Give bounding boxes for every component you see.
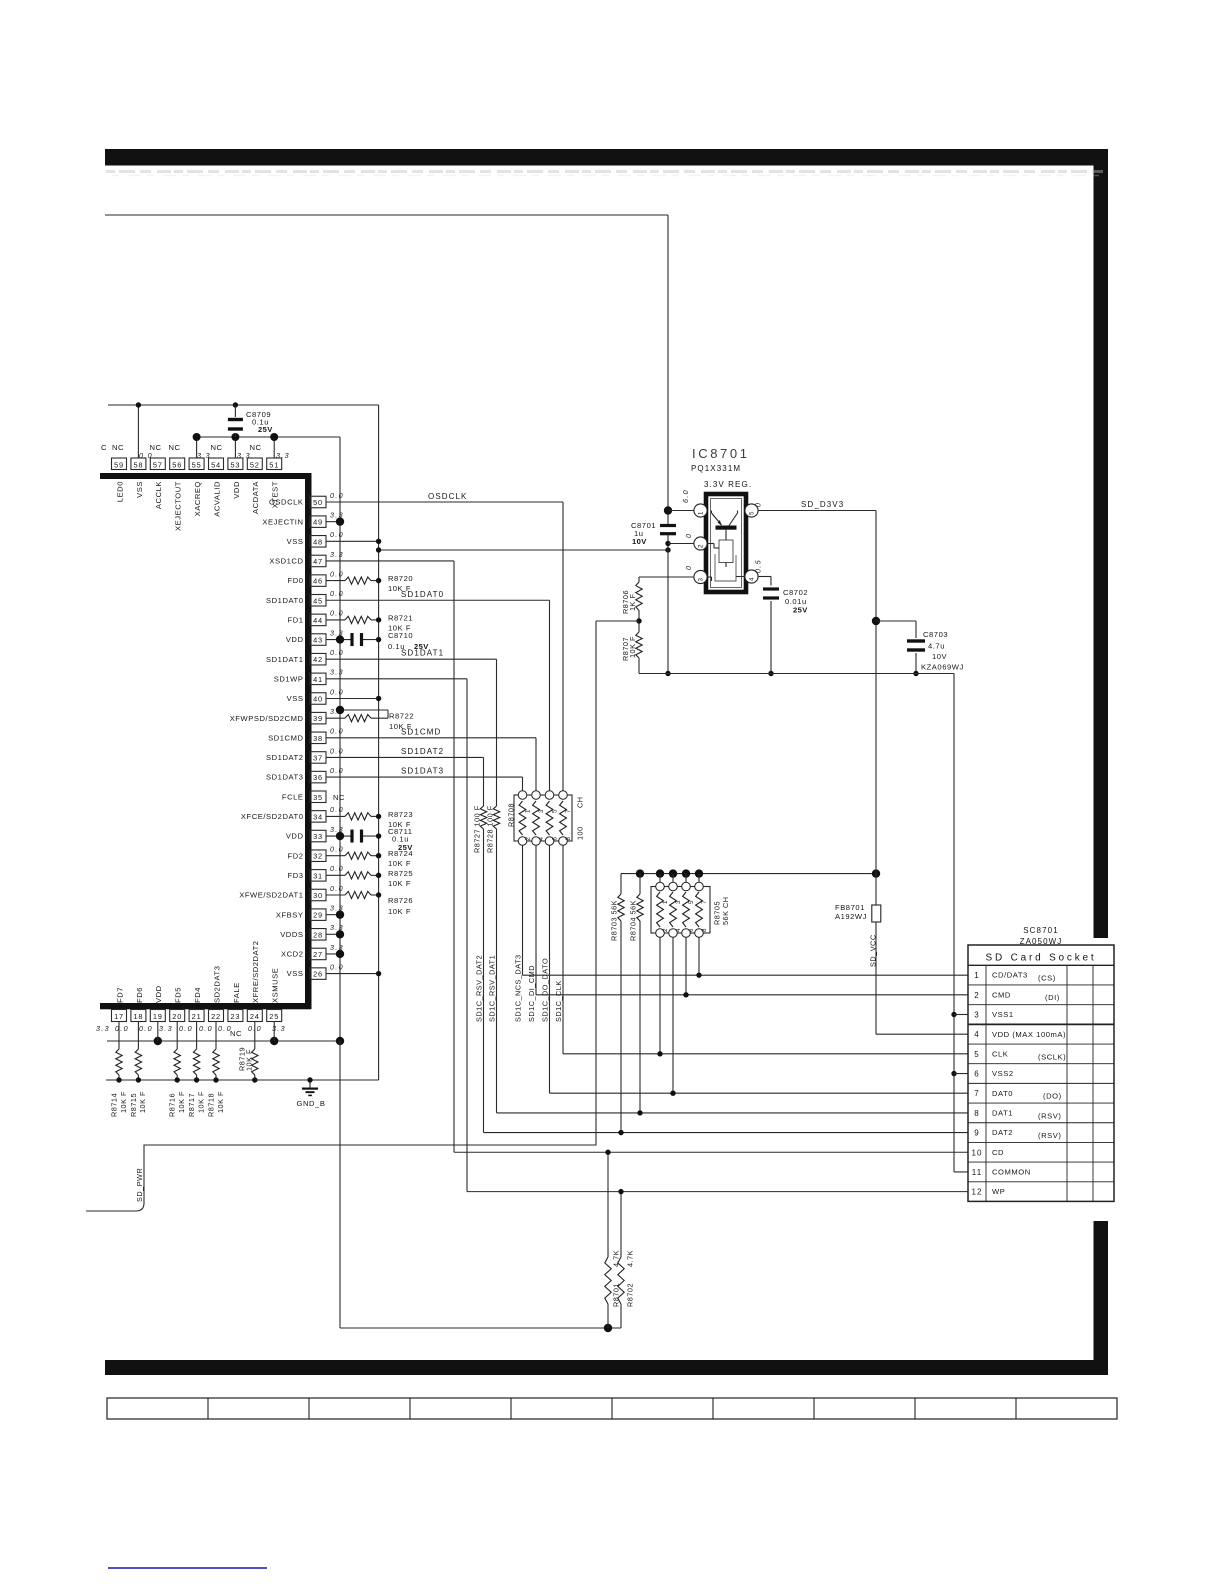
svg-text:28: 28	[313, 930, 323, 939]
svg-text:(DO): (DO)	[1043, 1092, 1062, 1101]
svg-text:20: 20	[172, 1012, 182, 1021]
svg-text:2: 2	[662, 928, 669, 932]
svg-text:0.0: 0.0	[330, 609, 344, 618]
svg-text:4.7K: 4.7K	[626, 1250, 635, 1267]
svg-text:1: 1	[525, 809, 532, 813]
svg-text:SD1CMD: SD1CMD	[268, 733, 303, 742]
svg-text:VSS1: VSS1	[992, 1010, 1014, 1019]
svg-text:37: 37	[313, 753, 323, 762]
svg-text:26: 26	[313, 970, 323, 979]
svg-text:CLK: CLK	[992, 1049, 1008, 1058]
svg-text:12: 12	[971, 1188, 982, 1197]
svg-text:31: 31	[313, 871, 323, 880]
svg-text:R8702: R8702	[626, 1283, 635, 1307]
svg-text:9: 9	[974, 1129, 980, 1138]
svg-text:10V: 10V	[632, 537, 647, 546]
svg-text:0.0: 0.0	[330, 864, 344, 873]
svg-text:VDD: VDD	[232, 481, 241, 499]
svg-text:VDD: VDD	[286, 832, 304, 841]
svg-text:49: 49	[313, 518, 323, 527]
svg-text:R8716: R8716	[168, 1093, 177, 1117]
svg-text:48: 48	[313, 537, 323, 546]
svg-text:2: 2	[525, 837, 532, 841]
svg-text:54: 54	[211, 460, 221, 469]
svg-text:44: 44	[313, 616, 323, 625]
svg-text:0.0: 0.0	[330, 746, 344, 755]
svg-text:3: 3	[974, 1011, 980, 1020]
svg-text:R8704 56K: R8704 56K	[629, 900, 638, 941]
svg-text:0.0: 0.0	[139, 451, 153, 460]
svg-text:51: 51	[269, 460, 279, 469]
svg-text:SC8701: SC8701	[1023, 926, 1059, 935]
svg-text:FD1: FD1	[288, 616, 304, 625]
svg-text:56: 56	[172, 460, 182, 469]
svg-text:SD1DAT1: SD1DAT1	[266, 655, 303, 664]
svg-text:SD Card Socket: SD Card Socket	[986, 953, 1097, 964]
svg-text:COMMON: COMMON	[992, 1168, 1031, 1177]
svg-text:VDD: VDD	[286, 635, 304, 644]
svg-text:FD4: FD4	[193, 987, 202, 1003]
svg-text:FALE: FALE	[232, 982, 241, 1003]
svg-text:R8727 100 F: R8727 100 F	[472, 805, 481, 853]
svg-text:4: 4	[675, 928, 682, 932]
svg-text:R8703 56K: R8703 56K	[610, 900, 619, 941]
svg-text:10K F: 10K F	[119, 1091, 128, 1113]
svg-text:2: 2	[698, 544, 705, 548]
svg-text:23: 23	[230, 1012, 240, 1021]
svg-text:0.0: 0.0	[139, 1024, 153, 1033]
svg-text:0: 0	[684, 565, 693, 570]
svg-text:0.0: 0.0	[179, 1024, 193, 1033]
svg-text:SD1DAT1: SD1DAT1	[401, 649, 444, 658]
svg-text:CD/DAT3: CD/DAT3	[992, 971, 1028, 980]
svg-text:VSS: VSS	[287, 537, 304, 546]
svg-text:R8725: R8725	[388, 869, 413, 878]
svg-text:25V: 25V	[793, 606, 808, 615]
svg-text:19: 19	[153, 1012, 163, 1021]
svg-text:DAT2: DAT2	[992, 1128, 1013, 1137]
svg-text:C: C	[101, 443, 107, 452]
svg-text:SD1C_RSV_DAT1: SD1C_RSV_DAT1	[488, 955, 497, 1022]
svg-text:SD_PWR: SD_PWR	[135, 1168, 144, 1202]
svg-text:17: 17	[114, 1012, 124, 1021]
svg-text:SD1DAT2: SD1DAT2	[401, 747, 444, 756]
svg-text:10K F: 10K F	[216, 1091, 225, 1113]
svg-text:33: 33	[313, 832, 323, 841]
svg-text:47: 47	[313, 557, 323, 566]
svg-text:0.0: 0.0	[330, 648, 344, 657]
svg-text:3.3: 3.3	[197, 451, 211, 460]
svg-text:ZA050WJ: ZA050WJ	[1020, 937, 1063, 946]
svg-text:LED0: LED0	[115, 481, 124, 502]
svg-text:SD1C_DI_CMD: SD1C_DI_CMD	[527, 965, 536, 1022]
svg-text:R8723: R8723	[388, 810, 413, 819]
svg-text:18: 18	[133, 1012, 143, 1021]
svg-text:10K F: 10K F	[245, 1049, 254, 1071]
svg-text:SD1DAT0: SD1DAT0	[401, 590, 444, 599]
svg-text:0.0: 0.0	[330, 884, 344, 893]
svg-text:VSS: VSS	[135, 481, 144, 498]
svg-text:SD1C_NCS_DAT3: SD1C_NCS_DAT3	[514, 954, 523, 1022]
svg-text:FD3: FD3	[288, 871, 304, 880]
svg-text:0.0: 0.0	[330, 727, 344, 736]
svg-text:SD1DAT3: SD1DAT3	[401, 767, 444, 776]
svg-text:39: 39	[313, 714, 323, 723]
svg-text:OSDCLK: OSDCLK	[428, 492, 468, 501]
svg-text:WP: WP	[992, 1187, 1005, 1196]
svg-text:(CS): (CS)	[1038, 974, 1056, 983]
svg-text:R8715: R8715	[129, 1093, 138, 1117]
svg-text:10: 10	[971, 1148, 982, 1157]
svg-text:IC8701: IC8701	[692, 446, 750, 461]
svg-text:SD_D3V3: SD_D3V3	[801, 500, 844, 509]
svg-text:0.0: 0.0	[330, 845, 344, 854]
svg-text:0.0: 0.0	[330, 687, 344, 696]
svg-text:XSMUSE: XSMUSE	[271, 968, 280, 1003]
svg-text:0.0: 0.0	[199, 1024, 213, 1033]
svg-text:XEJECTOUT: XEJECTOUT	[174, 481, 183, 531]
svg-text:KZA069WJ: KZA069WJ	[921, 663, 964, 672]
svg-text:NC: NC	[169, 443, 181, 452]
svg-text:10K F: 10K F	[388, 859, 411, 868]
svg-text:(RSV): (RSV)	[1038, 1131, 1061, 1140]
svg-text:6: 6	[974, 1070, 980, 1079]
svg-text:10K F: 10K F	[177, 1091, 186, 1113]
svg-text:FD2: FD2	[288, 851, 304, 860]
svg-text:FD6: FD6	[135, 987, 144, 1003]
svg-text:0.0: 0.0	[115, 1024, 129, 1033]
svg-text:0.0: 0.0	[330, 491, 344, 500]
svg-text:1: 1	[974, 971, 980, 980]
svg-text:6: 6	[688, 928, 695, 932]
svg-text:VDD: VDD	[154, 985, 163, 1003]
svg-text:ACCLK: ACCLK	[154, 481, 163, 509]
svg-text:NC: NC	[211, 443, 223, 452]
svg-text:FD7: FD7	[115, 987, 124, 1003]
svg-text:3.3: 3.3	[330, 550, 344, 559]
svg-text:27: 27	[313, 950, 323, 959]
svg-text:7: 7	[701, 900, 708, 904]
svg-text:8: 8	[565, 837, 572, 841]
svg-text:XCD2: XCD2	[281, 950, 303, 959]
svg-text:5: 5	[974, 1050, 980, 1059]
svg-text:10K F: 10K F	[628, 636, 637, 658]
svg-text:10V: 10V	[932, 652, 948, 661]
svg-text:0.0: 0.0	[330, 766, 344, 775]
svg-text:6.0: 6.0	[681, 489, 690, 503]
svg-text:55: 55	[192, 460, 202, 469]
svg-text:1: 1	[698, 511, 705, 515]
svg-text:R8708: R8708	[507, 803, 516, 827]
svg-text:CMD: CMD	[992, 990, 1011, 999]
svg-text:1: 1	[662, 900, 669, 904]
svg-text:R8714: R8714	[110, 1093, 119, 1117]
svg-text:50: 50	[313, 498, 323, 507]
svg-text:R8717: R8717	[187, 1093, 196, 1117]
svg-text:VSS: VSS	[287, 694, 304, 703]
svg-text:R8718: R8718	[207, 1093, 216, 1117]
svg-text:7: 7	[974, 1089, 980, 1098]
svg-text:5: 5	[688, 900, 695, 904]
svg-text:VSS2: VSS2	[992, 1069, 1014, 1078]
svg-text:SD1CMD: SD1CMD	[401, 727, 441, 736]
svg-text:R8726: R8726	[388, 896, 413, 905]
svg-text:R8728 100 F: R8728 100 F	[485, 805, 494, 853]
svg-text:43: 43	[313, 636, 323, 645]
svg-text:SD_VCC: SD_VCC	[869, 934, 878, 967]
svg-text:OSDCLK: OSDCLK	[269, 498, 304, 507]
svg-text:0.0: 0.0	[330, 962, 344, 971]
svg-text:0.5: 0.5	[754, 559, 763, 573]
svg-text:3.3V REG.: 3.3V REG.	[704, 480, 752, 489]
svg-text:SD1DAT0: SD1DAT0	[266, 596, 303, 605]
svg-text:SD1WP: SD1WP	[274, 674, 304, 683]
svg-text:XFBSY: XFBSY	[276, 910, 304, 919]
svg-text:VDDS: VDDS	[280, 930, 303, 939]
svg-text:XSD1CD: XSD1CD	[269, 557, 303, 566]
svg-text:30: 30	[313, 891, 323, 900]
svg-text:1K F: 1K F	[628, 594, 637, 611]
svg-text:XFCE/SD2DAT0: XFCE/SD2DAT0	[241, 812, 304, 821]
svg-text:0: 0	[754, 502, 763, 507]
svg-text:24: 24	[250, 1012, 260, 1021]
svg-text:40: 40	[313, 695, 323, 704]
svg-text:45: 45	[313, 596, 323, 605]
svg-text:32: 32	[313, 852, 323, 861]
svg-text:10K F: 10K F	[138, 1091, 147, 1113]
svg-text:R8722: R8722	[389, 712, 414, 721]
svg-text:PQ1X331M: PQ1X331M	[691, 464, 741, 473]
svg-text:SD1C_CLK: SD1C_CLK	[554, 980, 563, 1022]
svg-text:3: 3	[698, 577, 705, 581]
svg-text:8: 8	[701, 928, 708, 932]
svg-text:DAT1: DAT1	[992, 1109, 1013, 1118]
svg-text:21: 21	[192, 1012, 202, 1021]
svg-text:6: 6	[552, 837, 559, 841]
svg-text:R8701: R8701	[612, 1283, 621, 1307]
svg-text:FD5: FD5	[174, 987, 183, 1003]
svg-text:0.0: 0.0	[330, 589, 344, 598]
svg-text:0.0: 0.0	[330, 530, 344, 539]
svg-text:25V: 25V	[258, 425, 273, 434]
svg-text:2: 2	[974, 991, 980, 1000]
svg-text:SD1DAT2: SD1DAT2	[266, 753, 303, 762]
svg-text:NC: NC	[333, 793, 345, 802]
svg-text:SD1C_DO_DATO: SD1C_DO_DATO	[541, 958, 550, 1022]
svg-text:C8710: C8710	[388, 631, 413, 640]
svg-text:R8724: R8724	[388, 849, 413, 858]
svg-text:NC: NC	[250, 443, 262, 452]
svg-text:A192WJ: A192WJ	[835, 912, 867, 921]
svg-text:10K F: 10K F	[388, 907, 411, 916]
svg-text:3.3: 3.3	[159, 1024, 173, 1033]
svg-text:FCLE: FCLE	[282, 792, 304, 801]
svg-text:22: 22	[211, 1012, 221, 1021]
svg-text:(RSV): (RSV)	[1038, 1111, 1061, 1120]
svg-text:56K CH: 56K CH	[721, 896, 730, 925]
svg-text:3.3: 3.3	[330, 668, 344, 677]
svg-text:XACREQ: XACREQ	[193, 481, 202, 516]
svg-text:3: 3	[538, 809, 545, 813]
svg-text:4: 4	[974, 1030, 980, 1039]
svg-text:4.7K: 4.7K	[612, 1250, 621, 1267]
svg-text:11: 11	[972, 1168, 983, 1177]
svg-text:(SCLK): (SCLK)	[1038, 1052, 1066, 1061]
svg-text:DAT0: DAT0	[992, 1089, 1013, 1098]
svg-text:5: 5	[749, 511, 756, 515]
svg-text:FB8701: FB8701	[835, 903, 865, 912]
svg-text:3.3: 3.3	[237, 451, 251, 460]
svg-text:C8703: C8703	[923, 630, 948, 639]
svg-text:10K F: 10K F	[196, 1091, 205, 1113]
svg-text:10K F: 10K F	[388, 879, 411, 888]
svg-text:VSS: VSS	[287, 969, 304, 978]
svg-text:R8721: R8721	[388, 613, 413, 622]
svg-text:5: 5	[552, 809, 559, 813]
svg-text:CH: CH	[576, 796, 585, 808]
svg-text:100: 100	[576, 826, 585, 840]
svg-text:58: 58	[133, 460, 143, 469]
svg-text:FD0: FD0	[288, 576, 304, 585]
svg-text:CD: CD	[992, 1148, 1004, 1157]
svg-text:3.3: 3.3	[96, 1024, 110, 1033]
svg-text:41: 41	[313, 675, 323, 684]
svg-text:0.0: 0.0	[330, 569, 344, 578]
svg-text:59: 59	[114, 460, 124, 469]
svg-text:ACVALID: ACVALID	[212, 481, 221, 517]
svg-text:XFWE/SD2DAT1: XFWE/SD2DAT1	[239, 891, 303, 900]
svg-text:46: 46	[313, 577, 323, 586]
svg-text:C8702: C8702	[783, 588, 808, 597]
svg-text:XFWPSD/SD2CMD: XFWPSD/SD2CMD	[230, 714, 304, 723]
svg-text:29: 29	[313, 911, 323, 920]
svg-text:36: 36	[313, 773, 323, 782]
svg-text:8: 8	[974, 1109, 980, 1118]
svg-text:53: 53	[230, 460, 240, 469]
svg-text:ACDATA: ACDATA	[251, 481, 260, 514]
svg-text:SD1DAT3: SD1DAT3	[266, 773, 303, 782]
svg-text:GND_B: GND_B	[297, 1099, 326, 1108]
svg-text:7: 7	[565, 809, 572, 813]
svg-text:42: 42	[313, 655, 323, 664]
svg-text:SD2DAT3: SD2DAT3	[212, 966, 221, 1003]
svg-text:3.3: 3.3	[276, 451, 290, 460]
svg-text:4.7u: 4.7u	[928, 642, 945, 651]
svg-text:35: 35	[313, 793, 323, 802]
svg-text:25: 25	[269, 1012, 279, 1021]
svg-text:4: 4	[749, 577, 756, 581]
svg-text:VDD (MAX 100mA): VDD (MAX 100mA)	[992, 1030, 1066, 1039]
svg-text:R8720: R8720	[388, 574, 413, 583]
svg-text:52: 52	[250, 460, 260, 469]
svg-text:0.0: 0.0	[330, 805, 344, 814]
svg-text:4: 4	[538, 837, 545, 841]
svg-text:57: 57	[153, 460, 163, 469]
svg-text:NC: NC	[230, 1029, 242, 1038]
svg-text:(DI): (DI)	[1045, 993, 1060, 1002]
svg-text:3: 3	[675, 900, 682, 904]
svg-text:38: 38	[313, 734, 323, 743]
svg-text:SD1C_RSV_DAT2: SD1C_RSV_DAT2	[475, 955, 484, 1022]
svg-text:34: 34	[313, 812, 323, 821]
svg-text:0: 0	[684, 533, 693, 538]
svg-text:NC: NC	[112, 443, 124, 452]
svg-text:XEJECTIN: XEJECTIN	[262, 517, 303, 526]
svg-text:XFRE/SD2DAT2: XFRE/SD2DAT2	[251, 940, 260, 1003]
